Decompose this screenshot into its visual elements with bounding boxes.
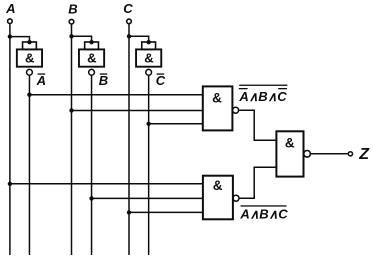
svg-text:A∧B∧C: A∧B∧C — [238, 89, 287, 104]
node A tap — [8, 182, 12, 186]
nand gate U4 body — [203, 86, 233, 130]
wire C-bar to gate U4 input 3 — [149, 123, 203, 125]
wire B to gate U4 input 2 — [72, 110, 204, 112]
svg-text:C: C — [123, 1, 133, 16]
label (A AND B AND C) overlined — [239, 205, 288, 221]
wire A to gate U5 input 1 — [10, 183, 203, 185]
input terminal C — [127, 19, 132, 24]
node A branch — [8, 34, 12, 38]
inverter U3 body — [136, 49, 161, 66]
node B tap — [69, 108, 73, 112]
node on U3 bridge — [146, 40, 150, 44]
svg-text:A∧B∧C: A∧B∧C — [239, 207, 288, 222]
wire U5 output to U6 — [239, 167, 276, 198]
inverter U1 body — [17, 49, 42, 66]
svg-text:&: & — [144, 51, 153, 66]
wire A to inverter U1 — [10, 37, 30, 43]
input terminal B — [69, 19, 74, 24]
svg-text:&: & — [87, 51, 96, 66]
svg-text:A: A — [36, 73, 46, 88]
node B-bar tap — [89, 196, 93, 200]
wire C-bar vertical — [148, 75, 150, 255]
nand gate U5 output bubble — [233, 195, 239, 201]
svg-text:B: B — [99, 73, 108, 88]
wire B vertical — [71, 24, 73, 255]
node B branch — [69, 34, 73, 38]
wire A-bar vertical — [28, 75, 30, 255]
wire to gate U5 input 2 — [92, 197, 203, 199]
wire C to inverter U3 — [129, 36, 149, 42]
inverter U2 body — [79, 49, 104, 66]
svg-text:&: & — [25, 51, 34, 66]
wire B-bar vertical — [91, 75, 93, 255]
svg-text:A: A — [5, 1, 15, 16]
label B-bar — [99, 73, 108, 88]
svg-text:&: & — [212, 90, 222, 105]
svg-text:Z: Z — [358, 146, 370, 163]
wire U4 output to U6 — [239, 110, 277, 140]
nand gate U6 body — [276, 131, 303, 176]
inverter U2 input bridge — [85, 42, 99, 49]
inverter U3 output bubble — [146, 69, 152, 75]
wire B to inverter U2 — [72, 36, 92, 42]
node C tap — [127, 210, 131, 214]
node C-bar tap — [146, 122, 150, 126]
nand gate U4 output bubble — [233, 107, 239, 113]
wire A vertical — [9, 24, 11, 255]
input terminal A — [8, 19, 13, 24]
node C branch — [127, 34, 131, 38]
inverter U3 input bridge — [142, 42, 156, 49]
label A-bar — [36, 73, 46, 88]
label (A-bar AND B AND C-bar) overlined — [238, 85, 287, 105]
inverter U1 input bridge — [23, 42, 37, 49]
nand gate U6 output bubble — [304, 151, 311, 158]
label C-bar — [156, 73, 166, 88]
svg-text:&: & — [285, 136, 295, 151]
node on U1 bridge — [27, 40, 31, 44]
node A-bar tap — [27, 93, 31, 97]
node on U2 bridge — [89, 40, 93, 44]
svg-text:C: C — [156, 73, 166, 88]
inverter U1 output bubble — [27, 69, 33, 75]
wire C vertical — [128, 24, 130, 255]
svg-text:&: & — [213, 178, 223, 193]
svg-text:B: B — [68, 2, 77, 17]
wire A-bar to gate U4 input 1 — [29, 94, 203, 96]
output terminal Z — [348, 152, 352, 156]
inverter U2 output bubble — [89, 69, 95, 75]
nand gate U5 body — [203, 176, 233, 220]
wire C to gate U5 input 3 — [129, 211, 203, 213]
wire U6 output to Z — [311, 153, 349, 155]
